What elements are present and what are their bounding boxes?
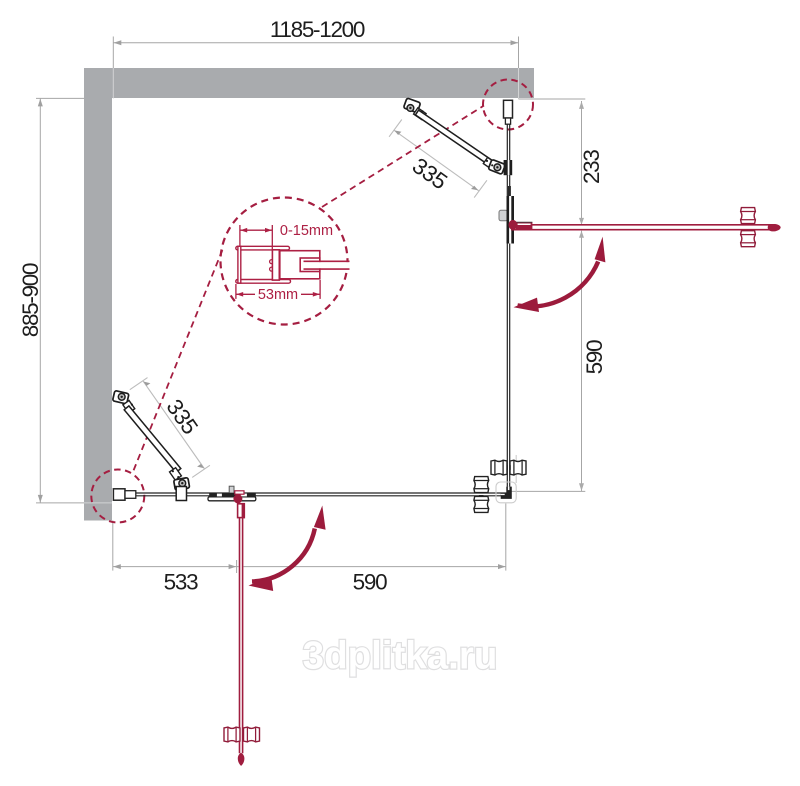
svg-text:533: 533 [164,569,198,594]
svg-text:3dplitka.ru: 3dplitka.ru [303,635,498,678]
svg-text:0-15mm: 0-15mm [280,223,333,239]
svg-text:335: 335 [408,153,452,194]
svg-text:590: 590 [582,340,607,374]
svg-text:590: 590 [353,569,387,594]
svg-text:335: 335 [161,395,202,439]
svg-text:1185-1200: 1185-1200 [270,17,365,42]
svg-text:885-900: 885-900 [18,263,43,337]
svg-text:53mm: 53mm [258,287,298,303]
svg-text:233: 233 [579,150,604,184]
